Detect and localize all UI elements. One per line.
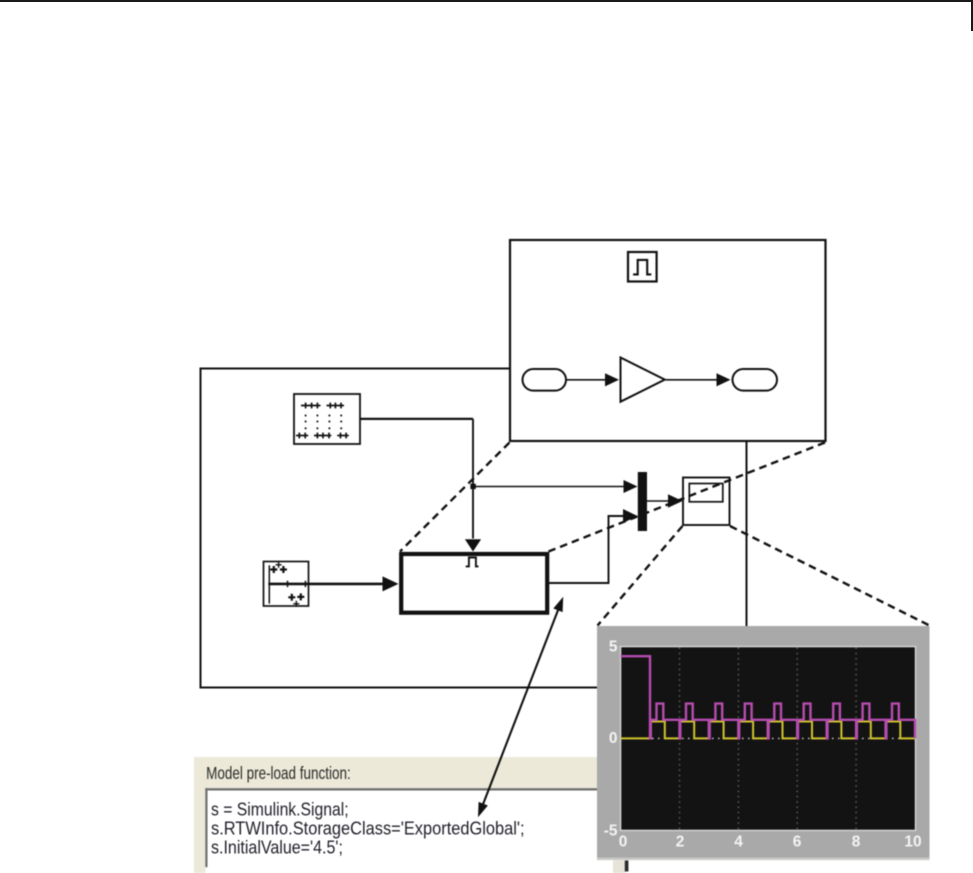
svg-text:-5: -5 — [604, 823, 618, 840]
svg-text:0: 0 — [609, 730, 618, 747]
svg-text:0: 0 — [619, 834, 628, 851]
svg-text:s = Simulink.Signal;: s = Simulink.Signal; — [211, 800, 349, 820]
svg-text:5: 5 — [609, 639, 618, 656]
svg-text:s.RTWInfo.StorageClass='Export: s.RTWInfo.StorageClass='ExportedGlobal'; — [211, 819, 525, 839]
svg-text:Model pre-load function:: Model pre-load function: — [206, 763, 351, 783]
svg-text:2: 2 — [676, 834, 685, 851]
svg-text:4: 4 — [734, 834, 743, 851]
svg-text:8: 8 — [852, 834, 861, 851]
svg-text:10: 10 — [904, 834, 921, 851]
svg-text:6: 6 — [793, 834, 802, 851]
svg-text:s.InitialValue='4.5';: s.InitialValue='4.5'; — [211, 838, 343, 858]
